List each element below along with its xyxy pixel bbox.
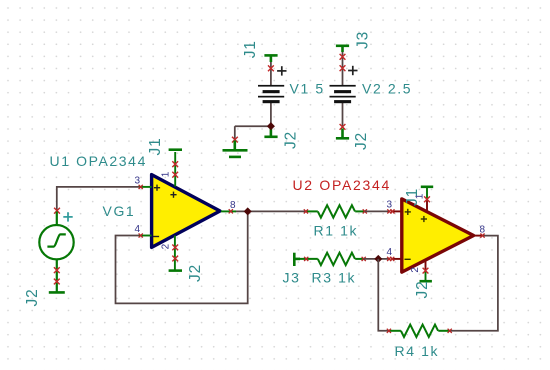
wire ground vertical [234,126,236,141]
pin x VG1 bottom a [54,267,60,273]
U2 input plus marker [405,209,411,215]
U2 output stub [474,235,483,237]
svg-text:J2: J2 [283,131,300,149]
pin x V2 bottom [340,124,346,130]
U1 pin4 stub [139,235,152,237]
U2 pin4 stub [391,258,402,260]
battery V2 plus sign [348,66,357,75]
wire V1 top lead [270,60,272,86]
pin x U2 pin4 b [390,257,394,261]
svg-text:4: 4 [135,224,141,235]
U1 pin3 stub [139,186,152,188]
svg-text:J1: J1 [147,138,164,156]
wire U2 feedback: junction down, bottom, right vertical [378,259,389,331]
resistor R1 [306,205,365,217]
source VG1 [39,212,73,292]
pin x U1 bottom b [172,256,178,262]
svg-text:U2 OPA2344: U2 OPA2344 [293,177,391,193]
terminal J1 (U1 top) [169,148,182,151]
svg-text:V1 5: V1 5 [290,80,325,96]
wire V2 top lead [342,50,344,86]
wire V1 bottom lead [270,102,272,126]
pin x U1 top b [172,172,178,178]
U1 top stub [174,152,176,187]
svg-text:J2: J2 [24,289,41,307]
U2 top stub maroon part [426,199,428,212]
wire VG1 to U1 pin3 [57,187,141,211]
U1 output stub [221,210,236,212]
resistor R4 [389,325,450,337]
svg-text:1: 1 [415,193,426,199]
pin x U1 pin4 [139,233,143,237]
pin x U1 output [229,209,233,213]
pin x V2 top a [340,54,346,60]
terminal J2 (V2 bottom) [336,129,349,139]
pin x U2 pin3 b [390,209,394,213]
wire R1 to U2 pin3 [365,210,390,212]
U2 top stub green part [426,188,428,199]
svg-text:R4 1k: R4 1k [395,343,440,359]
svg-text:3: 3 [135,175,141,186]
terminal J1 (U2 top) [421,186,433,189]
pin x U2 pin3 a [387,209,391,213]
pin x VG1 top [54,208,60,214]
terminal J2 (V1 bottom) [264,128,277,137]
svg-text:2: 2 [410,267,421,273]
wire V1 junction to ground horizontal [235,125,271,127]
pin x U1 top a [172,161,178,167]
svg-text:J2: J2 [187,264,204,282]
svg-text:8: 8 [480,224,486,235]
pin x U1 bottom a [172,245,178,251]
svg-text:1: 1 [160,171,171,177]
pin x R1 right [363,209,367,213]
junction U2 pin4 [374,255,382,263]
pin x U2 output [480,234,484,238]
svg-text:J2: J2 [353,132,370,150]
svg-text:J3: J3 [355,31,372,49]
svg-text:J2: J2 [414,281,431,299]
svg-text:4: 4 [387,247,393,258]
wire V2 bottom lead [342,102,344,128]
U1 bottom stub [174,236,176,270]
pin x U2 bottom [423,268,429,274]
U2 pin3 stub [391,210,402,212]
resistor R3 [299,253,365,265]
U2 bottom stub green part [425,271,427,280]
terminal J2 (U1 bottom) [169,269,182,272]
wire U1 feedback loop [116,211,248,303]
pin x U1 pin3 [139,185,143,189]
svg-text:R3 1k: R3 1k [312,270,357,286]
wire R3 to U2 pin4 [364,258,390,260]
pin x U2 top [424,196,430,202]
op-amp U1 [152,175,220,248]
svg-text:8: 8 [230,200,236,211]
VG1 plus sign [63,212,72,221]
pin x VG1 bottom b [54,279,60,285]
U1 power plus marker [170,192,176,198]
U2 input minus marker [405,258,411,260]
svg-text:U1 OPA2344: U1 OPA2344 [50,153,147,169]
U1 input minus marker [153,236,159,238]
U2 power plus marker [421,216,427,222]
U2 bottom stub maroon part [425,260,427,271]
pin x R1 left [304,209,308,213]
svg-text:3: 3 [387,200,393,211]
pin x V1 top [268,65,274,71]
pin x R4 right [448,329,452,333]
terminal J2 (VG1 bottom) [49,291,65,294]
pin x R3 left [304,257,308,261]
svg-text:J3: J3 [283,270,301,286]
junction V1-ground [267,122,275,130]
pin x ground [232,137,238,143]
svg-text:V2 2.5: V2 2.5 [362,80,412,96]
junction U1 output [244,207,252,215]
terminal J1 (V1 top) [264,55,277,62]
battery V1 [258,85,284,103]
pin x R4 left [387,329,391,333]
pin x R3 right [362,257,366,261]
ground symbol [223,141,248,157]
op-amp U2 [402,199,474,272]
battery V2 [330,85,356,103]
pin x V2 top b [340,65,346,71]
svg-text:R1 1k: R1 1k [314,223,359,239]
terminal J3 (V2 top) [336,46,349,52]
U1 input plus marker [154,185,160,191]
terminal J2 (U2 bottom) [420,280,432,283]
svg-text:2: 2 [160,243,171,249]
wire U1 output to R1 [236,210,306,212]
battery V1 plus sign [277,66,286,75]
terminal J3 (R3 left) [294,253,300,266]
svg-text:J1: J1 [242,40,259,58]
wire U2 output right and down [450,236,498,331]
pin x U2 pin4 a [387,257,391,261]
svg-text:VG1: VG1 [103,203,136,219]
